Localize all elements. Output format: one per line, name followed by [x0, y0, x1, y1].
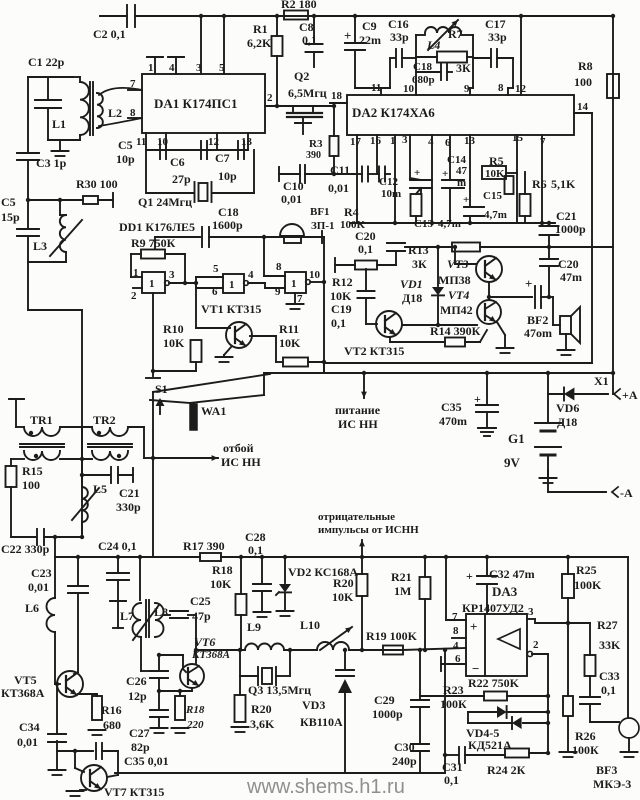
svg-text:R4: R4	[344, 205, 359, 219]
svg-text:Д18: Д18	[402, 291, 422, 305]
svg-text:12p: 12p	[128, 689, 147, 703]
svg-text:C35: C35	[441, 400, 462, 414]
svg-text:МКЭ-3: МКЭ-3	[593, 777, 631, 791]
svg-text:R18: R18	[212, 563, 233, 577]
svg-text:C1 22p: C1 22p	[28, 55, 65, 69]
svg-text:10K: 10K	[330, 289, 352, 303]
svg-text:C31: C31	[442, 760, 463, 774]
svg-text:R22 750K: R22 750K	[468, 676, 520, 690]
svg-text:11: 11	[371, 82, 381, 94]
svg-text:9: 9	[275, 286, 281, 298]
svg-text:+: +	[470, 619, 477, 634]
svg-text:8: 8	[276, 261, 282, 273]
svg-text:R15: R15	[22, 464, 43, 478]
svg-text:C6: C6	[170, 155, 185, 169]
svg-text:8: 8	[498, 82, 504, 94]
svg-text:2: 2	[131, 290, 137, 302]
svg-text:L10: L10	[300, 618, 320, 632]
svg-text:ИС НН: ИС НН	[221, 455, 261, 469]
svg-text:1: 1	[133, 267, 139, 279]
svg-text:4,7m: 4,7m	[484, 209, 507, 221]
svg-text:33p: 33p	[488, 30, 507, 44]
svg-text:G1: G1	[508, 431, 525, 446]
svg-text:10K: 10K	[332, 590, 354, 604]
svg-text:ЗП-1: ЗП-1	[311, 220, 335, 232]
svg-text:C23: C23	[31, 566, 52, 580]
svg-text:C3 1p: C3 1p	[36, 156, 67, 170]
svg-text:DA1 К174ПС1: DA1 К174ПС1	[154, 96, 237, 111]
svg-text:X1: X1	[594, 374, 609, 388]
svg-text:C34: C34	[19, 720, 40, 734]
svg-text:C24 0,1: C24 0,1	[98, 539, 137, 553]
svg-text:WA1: WA1	[201, 404, 226, 418]
svg-text:C28: C28	[245, 530, 266, 544]
svg-text:1000p: 1000p	[372, 707, 403, 721]
svg-text:6: 6	[212, 286, 218, 298]
svg-text:Q3 13,5Мгц: Q3 13,5Мгц	[248, 683, 311, 697]
svg-text:8: 8	[130, 107, 136, 119]
svg-text:+: +	[442, 168, 448, 180]
svg-text:www.shems.h1.ru: www.shems.h1.ru	[246, 776, 405, 798]
svg-text:+А: +А	[622, 388, 638, 402]
svg-text:C18: C18	[218, 205, 239, 219]
svg-text:-А: -А	[620, 486, 633, 500]
svg-text:0,01: 0,01	[281, 192, 302, 206]
svg-text:100: 100	[574, 75, 592, 89]
svg-text:47m: 47m	[560, 270, 582, 284]
svg-text:отрицательные: отрицательные	[318, 511, 395, 523]
svg-text:ИС НН: ИС НН	[338, 417, 378, 431]
svg-text:VT1 КТ315: VT1 КТ315	[201, 302, 261, 316]
svg-text:0,1: 0,1	[331, 316, 346, 330]
svg-text:L1: L1	[52, 117, 66, 131]
svg-text:VD1: VD1	[400, 277, 423, 291]
svg-text:9: 9	[464, 83, 470, 95]
svg-text:3: 3	[528, 606, 534, 618]
svg-text:15: 15	[512, 132, 524, 144]
svg-text:6,5Мгц: 6,5Мгц	[288, 86, 327, 100]
svg-text:VD3: VD3	[302, 698, 325, 712]
svg-text:5: 5	[213, 263, 219, 275]
svg-text:12: 12	[208, 136, 220, 148]
svg-text:680p: 680p	[412, 74, 435, 86]
svg-text:C5: C5	[118, 138, 133, 152]
svg-text:220: 220	[186, 719, 204, 731]
svg-text:C21: C21	[119, 486, 140, 500]
svg-text:390: 390	[306, 150, 321, 161]
svg-text:R1: R1	[253, 22, 268, 36]
svg-text:10p: 10p	[218, 169, 237, 183]
svg-text:МП42: МП42	[440, 303, 473, 317]
svg-text:L9: L9	[247, 620, 261, 634]
svg-text:Q2: Q2	[294, 69, 309, 83]
svg-text:1: 1	[229, 279, 235, 291]
svg-text:10K: 10K	[485, 168, 505, 180]
svg-text:C35 0,01: C35 0,01	[124, 754, 169, 768]
svg-text:3: 3	[402, 134, 408, 146]
svg-text:R19 100K: R19 100K	[366, 629, 418, 643]
svg-text:7: 7	[297, 293, 303, 305]
svg-text:R24 2К: R24 2К	[487, 763, 526, 777]
svg-text:33K: 33K	[599, 638, 621, 652]
svg-text:100К: 100К	[440, 697, 467, 711]
svg-text:3: 3	[169, 269, 175, 281]
svg-text:BF1: BF1	[310, 206, 330, 218]
svg-text:C29: C29	[374, 693, 395, 707]
svg-text:27p: 27p	[172, 172, 191, 186]
svg-text:R3: R3	[309, 138, 323, 150]
svg-text:+: +	[525, 276, 532, 291]
svg-text:S1: S1	[155, 382, 168, 396]
svg-text:12: 12	[515, 83, 527, 95]
svg-text:R9 750К: R9 750К	[131, 236, 176, 250]
svg-text:R7: R7	[448, 27, 463, 41]
svg-text:C16: C16	[388, 17, 409, 31]
svg-text:33p: 33p	[390, 30, 409, 44]
svg-text:R20: R20	[333, 576, 354, 590]
svg-text:100К: 100К	[572, 743, 599, 757]
svg-text:1000p: 1000p	[555, 222, 586, 236]
svg-text:100: 100	[22, 478, 40, 492]
svg-text:4: 4	[169, 62, 175, 74]
svg-text:C21: C21	[556, 209, 577, 223]
svg-text:0,1: 0,1	[358, 242, 373, 256]
svg-text:10m: 10m	[381, 188, 401, 200]
svg-text:L5: L5	[93, 482, 107, 496]
svg-text:R11: R11	[279, 322, 299, 336]
svg-text:BF2: BF2	[527, 313, 548, 327]
svg-text:17: 17	[350, 136, 362, 148]
svg-text:R25: R25	[576, 563, 597, 577]
svg-text:DA2 К174ХА6: DA2 К174ХА6	[352, 105, 435, 120]
svg-text:L7: L7	[120, 609, 134, 623]
svg-text:C7: C7	[215, 151, 230, 165]
svg-text:КТ368А: КТ368А	[1, 686, 45, 700]
svg-text:R30 100: R30 100	[76, 177, 118, 191]
svg-text:МП38: МП38	[438, 273, 471, 287]
svg-text:4: 4	[428, 136, 434, 148]
svg-text:L4: L4	[426, 38, 440, 52]
svg-text:C30: C30	[394, 740, 415, 754]
svg-text:m: m	[457, 177, 466, 189]
svg-text:+: +	[474, 392, 481, 406]
svg-text:R6: R6	[532, 177, 547, 191]
svg-text:11: 11	[136, 136, 146, 148]
svg-text:+: +	[414, 167, 420, 179]
svg-text:C5: C5	[1, 195, 16, 209]
svg-text:1: 1	[291, 278, 297, 290]
svg-text:VT3: VT3	[447, 257, 468, 271]
svg-text:C26: C26	[126, 674, 147, 688]
svg-text:питание: питание	[335, 403, 381, 417]
svg-text:4: 4	[453, 640, 459, 652]
svg-text:R10: R10	[163, 322, 184, 336]
svg-text:1: 1	[149, 278, 155, 290]
svg-text:330p: 330p	[116, 500, 141, 514]
svg-text:TR1: TR1	[30, 413, 53, 427]
svg-text:0,1: 0,1	[302, 33, 317, 47]
svg-text:470m: 470m	[439, 414, 467, 428]
svg-text:6: 6	[445, 137, 451, 149]
svg-text:0,01: 0,01	[328, 181, 349, 195]
svg-text:Q1 24Мгц: Q1 24Мгц	[138, 195, 192, 209]
svg-text:C9: C9	[362, 19, 377, 33]
svg-text:C20: C20	[355, 229, 376, 243]
svg-text:VT5: VT5	[14, 673, 37, 687]
svg-text:10p: 10p	[116, 152, 135, 166]
svg-text:C25: C25	[190, 594, 211, 608]
svg-text:С18: С18	[413, 61, 432, 73]
svg-text:10K: 10K	[279, 336, 301, 350]
svg-text:5,1K: 5,1K	[551, 177, 576, 191]
svg-text:L8: L8	[154, 605, 168, 619]
svg-text:680: 680	[103, 718, 121, 732]
svg-text:10K: 10K	[163, 336, 185, 350]
svg-text:0,01: 0,01	[17, 735, 38, 749]
svg-text:R12: R12	[332, 275, 353, 289]
svg-text:С13: С13	[414, 218, 433, 230]
svg-text:R13: R13	[408, 243, 429, 257]
svg-text:R17 390: R17 390	[183, 539, 225, 553]
svg-text:6: 6	[455, 653, 461, 665]
svg-text:R23: R23	[443, 683, 464, 697]
svg-text:C11: C11	[330, 163, 350, 177]
svg-text:1: 1	[390, 135, 396, 147]
svg-text:R20: R20	[251, 702, 272, 716]
svg-text:C32 47m: C32 47m	[489, 567, 535, 581]
svg-text:8: 8	[453, 625, 459, 637]
svg-text:DD1 К176ЛЕ5: DD1 К176ЛЕ5	[119, 220, 195, 234]
svg-text:−: −	[472, 661, 479, 676]
svg-text:VT4: VT4	[448, 288, 469, 302]
svg-text:КВ110А: КВ110А	[300, 715, 343, 729]
svg-text:7: 7	[540, 136, 546, 148]
svg-text:10K: 10K	[210, 577, 232, 591]
svg-text:+: +	[466, 569, 473, 583]
svg-text:47p: 47p	[192, 609, 211, 623]
svg-text:VD6: VD6	[556, 401, 579, 415]
svg-text:КР1407УД2: КР1407УД2	[462, 601, 524, 615]
svg-text:240p: 240p	[392, 754, 417, 768]
svg-text:15p: 15p	[1, 210, 20, 224]
svg-text:16: 16	[370, 135, 382, 147]
svg-text:3К: 3К	[412, 257, 427, 271]
svg-text:C2 0,1: C2 0,1	[93, 27, 126, 41]
svg-text:47оm: 47оm	[524, 326, 552, 340]
svg-text:R14 390К: R14 390К	[430, 324, 481, 338]
svg-text:VT6: VT6	[194, 635, 215, 649]
svg-text:VT2 КТ315: VT2 КТ315	[344, 344, 404, 358]
svg-text:C33: C33	[599, 669, 620, 683]
svg-text:1: 1	[148, 62, 154, 74]
svg-text:7: 7	[452, 611, 458, 623]
svg-text:18: 18	[331, 90, 343, 102]
svg-text:1600p: 1600p	[212, 218, 243, 232]
svg-text:C27: C27	[129, 726, 150, 740]
svg-text:5: 5	[219, 62, 225, 74]
svg-text:Д18: Д18	[557, 415, 577, 429]
svg-text:импульсы от ИСНН: импульсы от ИСНН	[318, 524, 419, 536]
svg-text:0,01: 0,01	[28, 580, 49, 594]
svg-text:C8: C8	[299, 20, 314, 34]
svg-text:82p: 82p	[131, 740, 150, 754]
svg-text:TR2: TR2	[93, 413, 116, 427]
svg-text:4: 4	[248, 269, 254, 281]
svg-text:R21: R21	[391, 570, 412, 584]
svg-text:+: +	[463, 194, 469, 206]
svg-text:22m: 22m	[359, 33, 381, 47]
svg-text:C20: C20	[558, 257, 579, 271]
svg-text:R26: R26	[575, 729, 596, 743]
svg-text:VT7 КТ315: VT7 КТ315	[104, 785, 164, 799]
svg-text:L6: L6	[25, 601, 39, 615]
svg-text:C10: C10	[283, 179, 304, 193]
svg-text:R16: R16	[101, 703, 122, 717]
svg-text:0,1: 0,1	[601, 683, 616, 697]
svg-text:2: 2	[267, 92, 273, 104]
svg-text:R27: R27	[597, 618, 618, 632]
svg-text:C15: C15	[483, 190, 502, 202]
svg-text:100K: 100K	[574, 578, 602, 592]
svg-text:DA3: DA3	[492, 584, 518, 599]
svg-text:9V: 9V	[504, 455, 521, 470]
svg-text:0,1: 0,1	[444, 773, 459, 787]
svg-text:+: +	[344, 28, 351, 43]
svg-text:C19: C19	[331, 302, 352, 316]
svg-text:14: 14	[577, 101, 589, 113]
svg-text:C17: C17	[485, 17, 506, 31]
svg-text:BF3: BF3	[596, 763, 617, 777]
svg-text:R8: R8	[578, 59, 593, 73]
svg-text:L3: L3	[33, 239, 47, 253]
svg-text:3,6K: 3,6K	[250, 717, 275, 731]
svg-text:0,1: 0,1	[248, 543, 263, 557]
svg-text:10: 10	[309, 269, 321, 281]
svg-text:3К: 3К	[456, 61, 471, 75]
svg-text:2: 2	[533, 639, 539, 651]
svg-text:47: 47	[456, 165, 468, 177]
svg-text:R2 180: R2 180	[281, 0, 317, 11]
svg-text:R18: R18	[185, 704, 205, 716]
svg-text:13: 13	[464, 135, 476, 147]
svg-text:3: 3	[196, 62, 202, 74]
svg-text:1М: 1М	[394, 584, 411, 598]
svg-text:13: 13	[241, 136, 253, 148]
svg-text:C22 330p: C22 330p	[1, 542, 50, 556]
svg-text:отбой: отбой	[223, 441, 254, 455]
svg-text:L2: L2	[108, 106, 122, 120]
svg-text:6,2K: 6,2K	[247, 36, 272, 50]
